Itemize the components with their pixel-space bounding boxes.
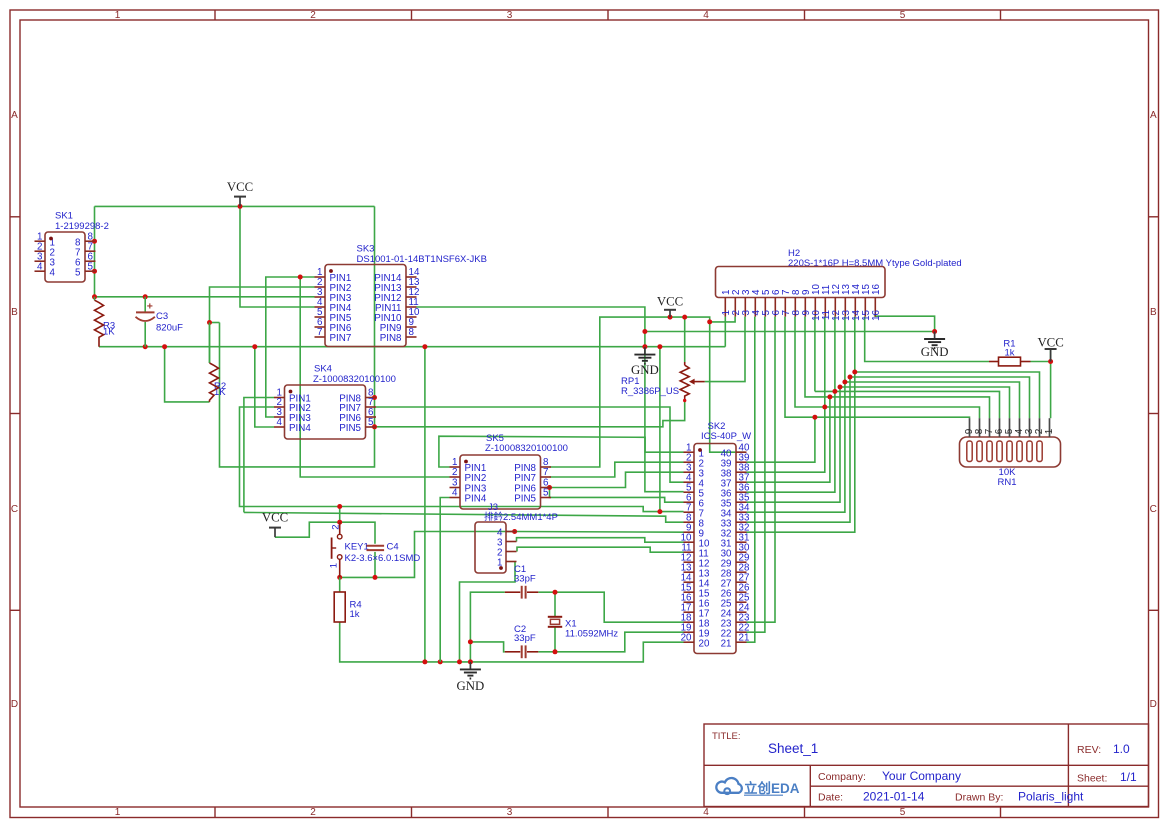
svg-text:D: D xyxy=(11,699,18,710)
svg-text:GND: GND xyxy=(457,679,485,693)
svg-text:PIN5: PIN5 xyxy=(514,494,536,505)
svg-text:GND: GND xyxy=(921,345,949,359)
connector SK1 xyxy=(35,211,109,282)
wire SK4 PIN2 to SK2 pin 7 xyxy=(240,407,684,512)
svg-text:PIN4: PIN4 xyxy=(289,423,311,434)
svg-text:DS1001-01-14BT1NSF6X-JKB: DS1001-01-14BT1NSF6X-JKB xyxy=(357,254,487,265)
wire SK5 PIN1 to SK2 pin 1 xyxy=(439,436,684,467)
wire J3 pin 1 to ground xyxy=(460,562,516,662)
svg-text:5: 5 xyxy=(368,417,374,428)
svg-text:5: 5 xyxy=(88,261,94,272)
wire bus row to RN1 pin 5 xyxy=(840,387,1010,418)
wire SK2 pin 35 riser xyxy=(747,387,841,502)
svg-text:4: 4 xyxy=(703,10,709,21)
power flag VCC right xyxy=(1037,335,1063,361)
capacitor C2 33pF xyxy=(505,624,539,658)
header H2 xyxy=(716,248,962,321)
wire J3 pin 4 to SK2 pin 9 xyxy=(515,531,684,534)
resistor R3 xyxy=(95,297,116,347)
wire H2 pin 13 column to SK2 pin 34 xyxy=(844,317,846,382)
ground GND left xyxy=(631,347,659,377)
wire SK3 PIN1 to SK4 PIN3 xyxy=(266,277,315,417)
svg-text:11.0592MHz: 11.0592MHz xyxy=(565,629,618,640)
connector SK3 xyxy=(315,244,487,347)
svg-text:33pF: 33pF xyxy=(514,633,536,644)
svg-text:16: 16 xyxy=(871,284,882,295)
svg-text:220S-1*16P H=8.5MM Ytype Gold-: 220S-1*16P H=8.5MM Ytype Gold-plated xyxy=(788,258,962,269)
ground GND right xyxy=(921,332,949,359)
wire SK2 pin 37 riser xyxy=(747,397,830,482)
wire R4 bottom ground rail xyxy=(340,622,684,662)
svg-text:1: 1 xyxy=(115,10,121,21)
crystal X1 11.0592MHz xyxy=(548,617,619,640)
EasyEDA logo xyxy=(716,778,799,796)
svg-text:1.0: 1.0 xyxy=(1113,742,1130,756)
svg-text:Your Company: Your Company xyxy=(882,769,961,783)
svg-text:C: C xyxy=(1150,504,1157,515)
power flag VCC key xyxy=(262,510,288,537)
wire bus row to RN1 pin 2 xyxy=(855,372,1040,418)
resistor R4 1k xyxy=(334,577,361,622)
wire KEY top branch up xyxy=(339,507,341,523)
svg-text:C3: C3 xyxy=(156,311,168,322)
title block xyxy=(704,724,1149,807)
wire SK4 PIN1 to diagonal xyxy=(244,398,274,513)
svg-text:R_3386P_US: R_3386P_US xyxy=(621,386,679,397)
svg-text:1K: 1K xyxy=(103,327,115,338)
svg-text:立创EDA: 立创EDA xyxy=(744,780,800,796)
wire SK4 PIN7 row to SK2 pin 4 xyxy=(376,407,684,482)
wire ground column to bottom rail xyxy=(424,347,426,662)
wire VCC rail right leg down to SK4 xyxy=(220,206,375,467)
svg-text:D: D xyxy=(1150,699,1157,710)
wire SK3 PIN1 to SK5 PIN2 xyxy=(300,277,449,477)
wire KEY top to C4 top xyxy=(340,522,375,544)
wire VCC top rail xyxy=(95,205,375,207)
svg-text:Drawn By:: Drawn By: xyxy=(955,791,1003,803)
wire VCC rail to SK1 right pins xyxy=(94,206,96,296)
capacitor C3 820uF polarized xyxy=(136,297,184,347)
svg-text:A: A xyxy=(11,110,18,121)
svg-text:VCC: VCC xyxy=(657,295,683,309)
svg-text:Polaris_light: Polaris_light xyxy=(1018,789,1084,803)
svg-text:1/1: 1/1 xyxy=(1120,770,1137,784)
svg-text:RN1: RN1 xyxy=(997,477,1016,488)
svg-text:Company:: Company: xyxy=(818,771,866,783)
wire SK2 pin 39 riser xyxy=(747,417,815,462)
wire KEY bottom row to J3 pin 4 xyxy=(340,532,515,578)
wire ground row to GND right xyxy=(645,331,935,333)
potentiometer RP1 xyxy=(621,362,705,402)
wire ground branch to C2 left xyxy=(470,642,504,652)
wire H2 pin 7 bus row P0.7 xyxy=(785,317,970,419)
svg-text:A: A xyxy=(1150,110,1157,121)
wire SK1 to SK3 PIN3 row xyxy=(95,296,315,298)
wire ground branch to SK2 pin 7 area xyxy=(659,347,661,512)
wire bus row to RN1 pin 3 xyxy=(850,377,1030,418)
pin header J3 xyxy=(475,502,558,573)
capacitor C1 33pF xyxy=(505,564,539,598)
wire R2 bottom to ground rail xyxy=(165,347,210,402)
connector SK2 xyxy=(681,421,752,654)
wire H2 pin 3 to RP1 wiper xyxy=(705,317,745,382)
svg-text:C4: C4 xyxy=(387,542,399,553)
wire H2 pin 4 to SK2 pin 21 xyxy=(747,317,755,643)
wire VCC to SK2 pin 40 xyxy=(710,322,746,452)
wire H2 pin 10 bus row xyxy=(815,391,1000,418)
wire C1 right to SK2 pin 18 xyxy=(538,592,683,622)
svg-text:VCC: VCC xyxy=(227,180,253,194)
svg-text:5: 5 xyxy=(543,488,549,499)
wire SK3 PIN11 to ground net xyxy=(417,307,684,492)
svg-text:VCC: VCC xyxy=(262,510,288,524)
svg-text:5: 5 xyxy=(900,807,906,818)
svg-text:2021-01-14: 2021-01-14 xyxy=(863,789,925,803)
svg-text:TITLE:: TITLE: xyxy=(712,731,741,742)
wire SK5 PIN6 to SK2 pin 6 xyxy=(550,488,684,503)
connector SK4 xyxy=(274,364,396,439)
wire C4 bottom xyxy=(374,552,376,578)
svg-text:REV:: REV: xyxy=(1077,744,1101,756)
svg-text:Sheet:: Sheet: xyxy=(1077,773,1107,785)
svg-text:7: 7 xyxy=(317,327,322,338)
wire H2 pin 11 lower segment xyxy=(747,407,825,472)
svg-text:ICS-40P_W: ICS-40P_W xyxy=(701,431,751,442)
wire ground to C1 left xyxy=(470,592,504,662)
svg-text:PIN7: PIN7 xyxy=(330,333,352,344)
svg-text:20: 20 xyxy=(699,638,710,649)
wire X1 bottom lead xyxy=(554,628,556,652)
wire ground rail upper xyxy=(99,346,725,348)
wire H2 pin 12 column to SK2 pin 36 xyxy=(834,317,836,392)
svg-text:Date:: Date: xyxy=(818,791,843,803)
svg-text:2: 2 xyxy=(310,10,316,21)
svg-text:4: 4 xyxy=(277,417,283,428)
wire diagonal SK4 PIN1 to SK2 pin 8 xyxy=(244,512,684,522)
svg-text:+: + xyxy=(147,300,153,312)
svg-text:PIN8: PIN8 xyxy=(380,333,402,344)
svg-text:21: 21 xyxy=(739,632,750,643)
svg-text:5: 5 xyxy=(75,267,81,278)
svg-text:Z-10008320100100: Z-10008320100100 xyxy=(485,443,568,454)
svg-text:2: 2 xyxy=(452,467,457,478)
svg-text:16: 16 xyxy=(871,309,882,320)
wire R2 top to SK3 PIN2 xyxy=(210,287,315,363)
column labels 1-5 xyxy=(115,10,906,818)
svg-text:1: 1 xyxy=(1044,428,1055,434)
svg-text:20: 20 xyxy=(681,632,692,643)
ground GND bottom xyxy=(457,662,485,693)
svg-text:21: 21 xyxy=(721,638,732,649)
svg-text:4: 4 xyxy=(37,261,43,272)
wire X1 top lead xyxy=(554,592,556,616)
power flag VCC middle xyxy=(657,295,683,318)
svg-text:4: 4 xyxy=(452,488,458,499)
svg-text:1-2199298-2: 1-2199298-2 xyxy=(55,221,109,232)
svg-text:1: 1 xyxy=(115,807,121,818)
svg-text:2: 2 xyxy=(310,807,316,818)
svg-text:B: B xyxy=(11,307,18,318)
svg-text:SK1: SK1 xyxy=(55,211,73,222)
svg-text:7: 7 xyxy=(543,467,548,478)
wire C2 right to SK2 pin 19 xyxy=(538,632,683,652)
wire VCC to RN1 pin 1 xyxy=(1050,349,1052,362)
svg-text:PIN5: PIN5 xyxy=(339,423,361,434)
wire SK2 pin 38 riser xyxy=(824,317,826,407)
svg-text:Sheet_1: Sheet_1 xyxy=(768,741,818,756)
svg-text:C: C xyxy=(11,504,18,515)
wire R1 right to VCC xyxy=(1031,361,1051,363)
wire ground rail to SK4 PIN4 xyxy=(255,347,274,427)
svg-text:KEY1: KEY1 xyxy=(345,542,369,553)
wire SK5 PIN4 to ground rail xyxy=(440,498,449,662)
wire VCC row to SK5 PIN8 xyxy=(550,317,736,467)
svg-text:VCC: VCC xyxy=(1037,335,1063,349)
resistor R1 1k xyxy=(989,338,1031,366)
svg-text:8: 8 xyxy=(409,327,415,338)
pushbutton KEY1 xyxy=(329,522,421,577)
svg-text:PIN2: PIN2 xyxy=(465,473,487,484)
row labels A-D xyxy=(11,110,1157,710)
svg-text:3: 3 xyxy=(507,10,513,21)
wire VCC to RP1 top xyxy=(684,317,686,362)
wire J3 pin 2 to SK2 pin 11 xyxy=(517,547,684,552)
wire H2 pin 10 upper segment xyxy=(814,317,816,392)
wire H2 pin 9 bus row xyxy=(805,317,990,419)
capacitor C4 xyxy=(367,542,399,553)
wire H2 pin 1 to ground rail xyxy=(724,317,726,347)
wire jog to R2 column xyxy=(210,322,220,324)
wire bus row to RN1 pin 4 xyxy=(845,382,1020,418)
wire VCC stem to SK3 PIN4 xyxy=(240,206,315,307)
svg-text:B: B xyxy=(1150,307,1157,318)
svg-text:4: 4 xyxy=(50,267,56,278)
svg-text:1k: 1k xyxy=(350,609,360,620)
wire J3 pin 3 to SK2 pin 10 xyxy=(517,538,684,543)
power flag VCC top xyxy=(227,180,253,206)
wire SK4 PIN5 row to RP1 bottom xyxy=(375,401,685,427)
svg-text:PIN7: PIN7 xyxy=(514,473,536,484)
wire SK5 PIN7 to SK2 pin 2 xyxy=(550,462,684,477)
svg-text:2: 2 xyxy=(331,525,342,530)
svg-text:4: 4 xyxy=(703,807,709,818)
wire H2 pin 8 bus row xyxy=(795,317,980,419)
connector SK5 xyxy=(450,433,568,509)
svg-text:820uF: 820uF xyxy=(156,322,183,333)
svg-text:Z-10008320100100: Z-10008320100100 xyxy=(313,374,396,385)
wire H2 pin 14 column to SK2 pin 32 xyxy=(854,317,856,372)
resistor network RN1 10K xyxy=(960,418,1061,488)
wire H2 pin 15 to R1 xyxy=(865,317,989,362)
svg-text:K2-3.6×6.0.1SMD: K2-3.6×6.0.1SMD xyxy=(345,553,421,564)
wire KEY VCC feed xyxy=(275,522,340,537)
svg-text:PIN4: PIN4 xyxy=(465,494,487,505)
wire H2 pin 6 to SK2 pin 23 xyxy=(747,317,776,623)
svg-text:3: 3 xyxy=(507,807,513,818)
svg-text:33pF: 33pF xyxy=(514,574,536,585)
wire H2 pin 16 to GND xyxy=(875,316,935,331)
resistor R2 xyxy=(210,323,227,402)
svg-text:GND: GND xyxy=(631,363,659,377)
wire H2 pin 5 to SK2 pin 22 xyxy=(747,317,765,633)
svg-text:5: 5 xyxy=(900,10,906,21)
svg-text:1: 1 xyxy=(329,563,340,568)
wire SK5 PIN6 to SK2 pin 3 xyxy=(550,472,684,487)
wire SK2 pin 33 riser xyxy=(747,377,851,522)
